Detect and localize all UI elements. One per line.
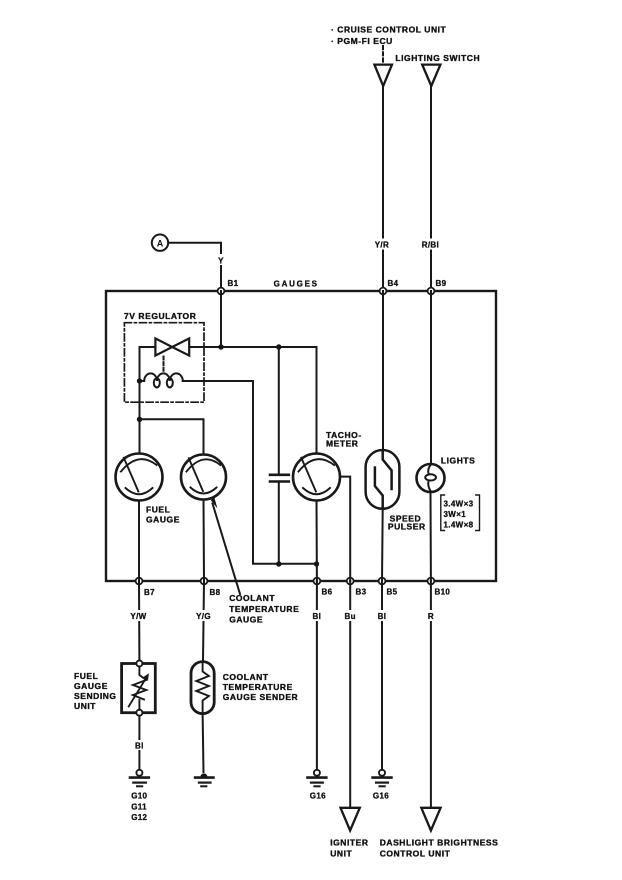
junction at B1 stem and bus xyxy=(218,344,223,349)
svg-text:GAUGE: GAUGE xyxy=(229,615,263,625)
connector arrow to lighting switch xyxy=(422,65,440,86)
svg-text:METER: METER xyxy=(326,439,359,449)
wire B6 to ground G16 xyxy=(316,581,318,770)
junction capacitor at common rail xyxy=(276,561,281,566)
svg-text:B8: B8 xyxy=(210,588,221,597)
coil L1 (regulator) xyxy=(140,373,183,387)
label R/BI xyxy=(421,239,442,250)
wire B5 to ground G16 xyxy=(381,581,383,770)
svg-text:B4: B4 xyxy=(388,279,399,288)
connector arrow to igniter unit xyxy=(341,808,360,831)
svg-text:· PGM-FI ECU: · PGM-FI ECU xyxy=(331,36,393,46)
svg-text:G16: G16 xyxy=(310,792,326,801)
ground G16 (B6 branch) xyxy=(308,770,327,787)
terminal B3 xyxy=(347,578,367,597)
wire B8 to coolant sender xyxy=(203,581,204,662)
svg-text:IGNITER: IGNITER xyxy=(330,838,368,848)
svg-text:BI: BI xyxy=(378,612,387,621)
ground G10/G11/G12 xyxy=(130,770,149,787)
wire coil right lead to common drop xyxy=(183,381,317,564)
svg-text:UNIT: UNIT xyxy=(330,849,352,859)
svg-text:A: A xyxy=(157,239,164,249)
wire coolant gauge to B8 xyxy=(203,500,206,582)
wire B1 stem into regulator bus xyxy=(220,291,222,347)
wire speed pulser to B5 xyxy=(381,509,384,581)
dashed link diode to coil xyxy=(163,357,165,373)
svg-text:B6: B6 xyxy=(322,588,333,597)
svg-text:TEMPERATURE: TEMPERATURE xyxy=(223,682,293,692)
label TACHO-METER xyxy=(326,430,362,449)
svg-text:PULSER: PULSER xyxy=(388,522,426,532)
label BI (B5) xyxy=(373,610,391,621)
leader arrow to coolant gauge xyxy=(211,496,240,594)
svg-text:BI: BI xyxy=(313,612,322,621)
gauges assembly box xyxy=(106,291,496,581)
tachometer M3 xyxy=(293,454,340,501)
svg-text:G11: G11 xyxy=(131,802,147,811)
wire capacitor bottom to common rail xyxy=(278,482,280,565)
label COOLANT TEMPERATURE GAUGE SENDER xyxy=(223,672,299,702)
svg-text:7V REGULATOR: 7V REGULATOR xyxy=(124,311,196,321)
capacitor C1 xyxy=(270,475,289,482)
svg-text:B7: B7 xyxy=(144,588,155,597)
node: CRUISE CONTROL UNIT / PGM-FI ECU label xyxy=(331,25,447,47)
wire: dashed lead to cruise control unit xyxy=(382,46,384,63)
wire Y/R from cruise arrow to B4 xyxy=(382,86,384,291)
terminal B5 xyxy=(379,578,398,597)
svg-text:COOLANT: COOLANT xyxy=(229,593,275,603)
label COOLANT TEMPERATURE GAUGE xyxy=(229,593,299,625)
wire left vertical drop of regulator xyxy=(139,347,141,454)
label Y/W xyxy=(126,610,151,621)
label IGNITER UNIT xyxy=(330,838,368,859)
label G10 G11 G12 xyxy=(131,792,147,823)
svg-text:BI: BI xyxy=(135,742,144,751)
zener diode pair (regulator) xyxy=(155,338,189,355)
fuel gauge M1 xyxy=(116,454,163,501)
svg-text:Bu: Bu xyxy=(345,612,356,621)
svg-text:Y: Y xyxy=(218,257,224,266)
terminal B10 xyxy=(428,578,451,597)
junction common rail at tacho drop xyxy=(314,561,319,566)
svg-text:GAUGE: GAUGE xyxy=(146,515,180,525)
svg-text:3W×1: 3W×1 xyxy=(444,510,467,519)
lights wattage bracket xyxy=(441,495,480,531)
wire B7 to fuel sending unit xyxy=(138,581,140,661)
svg-text:B3: B3 xyxy=(356,588,367,597)
junction at capacitor branch and bus xyxy=(276,344,281,349)
svg-text:B10: B10 xyxy=(435,588,451,597)
label R xyxy=(423,610,439,621)
label DASHLIGHT BRIGHTNESS CONTROL UNIT xyxy=(380,838,499,859)
svg-text:Y/R: Y/R xyxy=(375,241,389,250)
connector arrow to cruise control unit / PGM-FI ECU xyxy=(374,65,392,86)
svg-text:3.4W×3: 3.4W×3 xyxy=(444,500,474,509)
svg-text:GAUGES: GAUGES xyxy=(274,280,319,289)
wire regulator bus y=347 xyxy=(140,346,317,348)
label BI (B6) xyxy=(308,610,326,621)
terminal B7 xyxy=(136,578,156,597)
label BI (sending unit) xyxy=(131,740,148,751)
wire fuel gauge to B7 xyxy=(138,501,140,582)
speed pulser xyxy=(366,450,400,509)
terminal B4 xyxy=(380,279,399,294)
coolant temperature gauge M2 xyxy=(181,455,226,500)
wire lights to B10 xyxy=(430,492,432,581)
svg-text:DASHLIGHT BRIGHTNESS: DASHLIGHT BRIGHTNESS xyxy=(380,838,499,848)
label Y xyxy=(216,254,226,266)
coolant temperature gauge sender xyxy=(191,662,214,714)
svg-text:FUEL: FUEL xyxy=(146,505,170,515)
wire B10 to dashlight control xyxy=(430,581,432,808)
terminal B8 xyxy=(201,578,221,597)
terminal B6 xyxy=(314,578,333,597)
svg-text:Y/G: Y/G xyxy=(196,612,211,621)
junction fuel/coolant branch xyxy=(137,417,142,422)
svg-text:R/BI: R/BI xyxy=(422,241,439,250)
wire tachometer to B6 xyxy=(316,501,318,582)
wire B9 stem to lights xyxy=(430,291,432,464)
svg-text:LIGHTS: LIGHTS xyxy=(441,456,475,466)
ground (coolant sender) xyxy=(195,773,213,786)
svg-text:UNIT: UNIT xyxy=(74,701,96,711)
wire B4 stem to speed pulser xyxy=(382,291,384,450)
label FUEL GAUGE xyxy=(146,505,180,525)
wire sending unit to ground xyxy=(138,716,140,770)
ground G16 (B5 branch) xyxy=(373,770,392,787)
label Y/G xyxy=(191,610,215,621)
label SPEED PULSER xyxy=(388,514,426,532)
wire branch to coolant temperature gauge xyxy=(140,419,204,454)
wire capacitor branch from bus xyxy=(278,347,280,474)
terminal B9 xyxy=(428,279,447,294)
label Bu xyxy=(341,610,360,621)
svg-text:G16: G16 xyxy=(373,792,389,801)
svg-text:R: R xyxy=(428,612,434,621)
fuel gauge sending unit box xyxy=(122,661,156,716)
svg-text:GAUGE: GAUGE xyxy=(74,681,108,691)
junction coil left lead xyxy=(137,378,142,383)
svg-text:B5: B5 xyxy=(387,588,398,597)
svg-text:G12: G12 xyxy=(131,813,147,822)
wire sender to ground xyxy=(202,714,205,772)
svg-text:G10: G10 xyxy=(131,792,147,801)
svg-text:GAUGE SENDER: GAUGE SENDER xyxy=(223,692,299,702)
terminal B1 xyxy=(218,279,239,294)
svg-text:1.4W×8: 1.4W×8 xyxy=(444,521,474,530)
wire B3 to igniter unit xyxy=(349,581,351,808)
wire tachometer right lead to B3 xyxy=(340,477,350,581)
wire bus drop to tachometer xyxy=(316,347,318,454)
svg-text:· CRUISE CONTROL UNIT: · CRUISE CONTROL UNIT xyxy=(331,25,447,35)
svg-text:LIGHTING SWITCH: LIGHTING SWITCH xyxy=(395,53,480,63)
svg-text:COOLANT: COOLANT xyxy=(223,672,269,682)
svg-text:B9: B9 xyxy=(436,279,447,288)
label Y/R xyxy=(373,239,393,250)
svg-text:SENDING: SENDING xyxy=(74,691,117,701)
svg-text:B1: B1 xyxy=(228,279,239,288)
svg-text:FUEL: FUEL xyxy=(74,671,98,681)
svg-text:TEMPERATURE: TEMPERATURE xyxy=(229,604,299,614)
wire R/BI from lighting switch arrow to B9 xyxy=(430,86,432,291)
lights bulb xyxy=(417,464,445,492)
connector arrow to dashlight brightness control unit xyxy=(421,808,440,831)
svg-text:CONTROL UNIT: CONTROL UNIT xyxy=(380,849,451,859)
wire from connector A to B1 xyxy=(168,243,221,291)
connector A (circle) xyxy=(152,235,168,251)
label FUEL GAUGE SENDING UNIT xyxy=(74,671,117,711)
svg-text:Y/W: Y/W xyxy=(130,612,146,621)
7V regulator dashed outline xyxy=(124,323,204,403)
